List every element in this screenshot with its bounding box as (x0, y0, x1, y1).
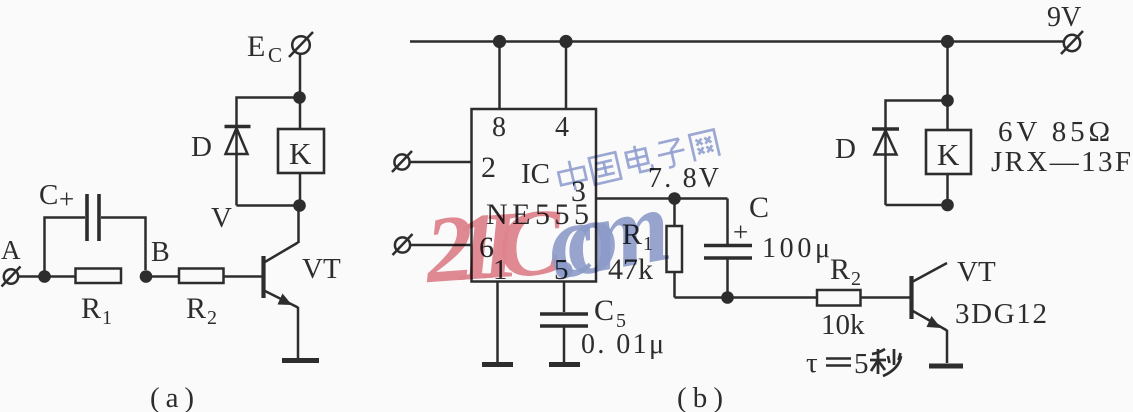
svg-text:2: 2 (481, 151, 496, 184)
svg-text:K: K (289, 136, 312, 171)
wire bottom rail (b) (675, 296, 818, 299)
power rail 9V (410, 40, 1064, 43)
svg-text:8: 8 (492, 112, 506, 143)
terminal input pin2 (392, 151, 412, 172)
wire pin5 (563, 282, 566, 313)
capacitor C (b) (704, 246, 752, 259)
watermark 21IC red text (420, 128, 720, 304)
wire relay bottom lead (b) (946, 174, 949, 205)
svg-text:JRX—13F: JRX—13F (991, 146, 1131, 178)
node junction at A (38, 270, 51, 283)
ground C5 (549, 362, 580, 367)
wire diode to V node (237, 204, 300, 207)
svg-text:4: 4 (555, 112, 569, 143)
wire R1b bottom (673, 272, 676, 298)
transistor VT (b) (912, 263, 948, 363)
watermark Chinese characters 中国电子网 (556, 128, 720, 193)
label R2 (b) (830, 253, 861, 290)
wire A to R1 (18, 275, 76, 278)
svg-text:0. 01μ: 0. 01μ (581, 329, 664, 360)
wire V to collector (297, 206, 300, 244)
resistor R2 (179, 269, 224, 284)
label C5 (594, 294, 626, 332)
svg-text:2: 2 (851, 268, 861, 290)
resistor R1 (b) 47k (667, 226, 683, 272)
wire to R1b top (673, 199, 676, 227)
char 国 (589, 152, 621, 184)
wire to diode branch (a) (237, 98, 300, 206)
svg-text:1: 1 (102, 307, 112, 329)
wire pin6 (410, 244, 472, 247)
node B junction (140, 270, 153, 283)
svg-text:C: C (749, 191, 769, 224)
wire R2 to base (224, 275, 263, 278)
wire diode bottom (b) (886, 204, 948, 207)
diode D (b) (872, 129, 899, 155)
svg-text:2: 2 (207, 307, 217, 329)
svg-text:V: V (211, 202, 232, 234)
transistor VT (a) (264, 243, 299, 359)
svg-text:+: + (59, 184, 74, 214)
relay K (a) (278, 129, 324, 173)
svg-text:C: C (39, 179, 58, 211)
wire C top (726, 199, 729, 245)
wire pin2 (410, 161, 472, 164)
wire to diode branch (b) (886, 101, 948, 206)
node rail junction relay (941, 35, 954, 48)
char 电 (624, 143, 652, 174)
svg-text:.com: .com (538, 167, 678, 302)
wire pin4 (565, 42, 568, 110)
svg-text:R: R (830, 253, 850, 286)
svg-text:9V: 9V (1047, 2, 1081, 33)
diode D (a) (225, 127, 251, 155)
node C bottom junction (721, 291, 734, 304)
wire relay bottom (a) (299, 173, 302, 206)
wire output to C (675, 197, 728, 200)
label R1 (81, 292, 112, 329)
svg-text:(b): (b) (677, 382, 723, 412)
relay K (b) (926, 130, 971, 174)
capacitor C5 (540, 314, 588, 326)
svg-text:+: + (733, 217, 748, 247)
terminal input pin6 (393, 234, 413, 255)
node top junction (a) (293, 91, 306, 104)
char 网 (689, 130, 719, 162)
svg-text:E: E (247, 30, 265, 63)
svg-text:A: A (1, 235, 21, 265)
terminal EC (289, 32, 313, 57)
wire C5 to ground (563, 326, 566, 362)
svg-text:VT: VT (302, 253, 341, 285)
node rail junction pin8 (493, 35, 506, 48)
ground (a) (282, 358, 319, 363)
svg-text:100μ: 100μ (762, 233, 830, 264)
svg-text:B: B (151, 237, 170, 268)
resistor R1 (76, 269, 122, 284)
wire B to R2 (152, 275, 179, 278)
node rail junction pin4 (559, 35, 572, 48)
wire C bottom (726, 258, 729, 298)
capacitor C plates (87, 194, 99, 241)
wire relay top lead (b) (946, 101, 949, 131)
svg-text:3DG12: 3DG12 (955, 298, 1047, 330)
svg-text:K: K (937, 137, 960, 172)
terminal 9V (1061, 31, 1083, 54)
node relay bottom junction (b) (941, 199, 954, 212)
node relay top junction (b) (941, 94, 954, 107)
ground VT (b) (929, 364, 963, 369)
ground pin1 (482, 362, 513, 367)
svg-text:(a): (a) (150, 382, 194, 412)
IC U1 NE555 box (472, 109, 597, 282)
label EC (247, 30, 282, 67)
label R2 (186, 292, 217, 329)
svg-text:D: D (191, 131, 212, 163)
wire relay top (a) (299, 98, 302, 130)
label R1 (b) (622, 218, 653, 255)
terminal A (2, 267, 21, 287)
wire EC down (299, 54, 302, 98)
resistor R2 (b) 10k (817, 290, 861, 306)
svg-text:C: C (268, 43, 282, 67)
node V junction (293, 199, 306, 212)
wire rail to relay (b) (946, 42, 949, 101)
svg-text:5: 5 (854, 348, 869, 380)
svg-text:10k: 10k (821, 309, 865, 341)
svg-text:R: R (186, 292, 206, 325)
svg-text:R: R (81, 292, 101, 325)
wire pin3 output (596, 197, 675, 200)
watermark .com blue text (538, 167, 678, 302)
wire R2b to base (861, 296, 911, 299)
svg-text:VT: VT (957, 256, 996, 288)
wire pin1 to ground (496, 282, 499, 363)
label tau=5s (806, 347, 869, 380)
char 中 (556, 158, 588, 193)
label seconds glyph 秒 (870, 349, 901, 376)
wire capacitor loop left (45, 218, 86, 277)
node output junction (668, 192, 681, 205)
wire pin8 (498, 42, 501, 110)
svg-text:τ: τ (806, 347, 818, 379)
svg-text:C: C (594, 294, 614, 327)
svg-text:D: D (835, 133, 856, 165)
char 子 (655, 138, 687, 170)
wire capacitor loop right (101, 218, 146, 271)
svg-text:6V 85Ω: 6V 85Ω (998, 116, 1110, 148)
svg-text:IC: IC (521, 158, 550, 190)
